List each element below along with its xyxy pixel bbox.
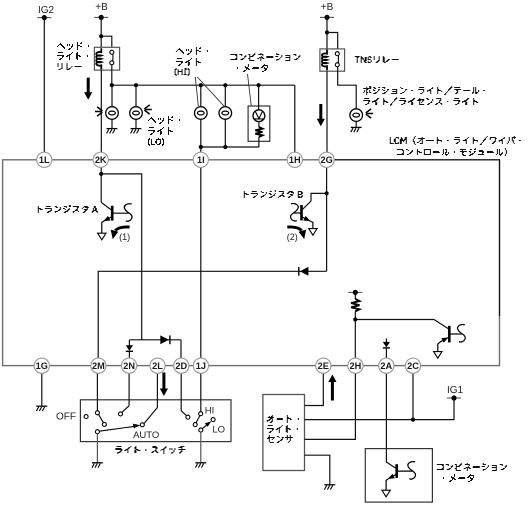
node 2M <box>91 358 106 373</box>
wire LO lamp1 to ground <box>111 119 113 128</box>
wire to HI lamp2 <box>224 85 226 107</box>
label LCM line1 <box>390 136 521 145</box>
wire to transistor B <box>303 193 327 209</box>
wire 2L elbow to AUTO contact <box>144 408 157 424</box>
diode to 2N <box>126 345 133 351</box>
junction bus meter <box>257 83 261 87</box>
label transistor A <box>38 205 98 213</box>
relay box TNS relay <box>320 49 345 71</box>
hook transistor B base <box>291 204 299 221</box>
ground LO lamp2 <box>131 129 142 134</box>
wire 1J into switch <box>200 373 202 411</box>
current arrow (2) <box>287 227 301 230</box>
wire 2G down to diode row <box>326 167 328 271</box>
wire to HI lamp1 <box>200 85 202 107</box>
wire IG2 to 1L <box>43 18 45 153</box>
svg-text:(1): (1) <box>119 232 130 242</box>
lamp headlight HI 2 <box>219 107 232 120</box>
node 2G <box>319 152 334 167</box>
svg-text:AUTO: AUTO <box>133 430 159 441</box>
relay coil <box>96 48 101 69</box>
switch blade AUTO with arrow <box>99 426 138 431</box>
junction bus HI2 <box>223 83 227 87</box>
svg-text:1L: 1L <box>39 155 50 165</box>
wire bus to meter lamp <box>258 85 260 110</box>
hook transistor A base <box>124 204 132 221</box>
lamp headlight LO 1 <box>106 107 119 120</box>
label sensor line2 <box>267 425 298 433</box>
wire to LO lamp1 <box>111 85 113 107</box>
LCM module box <box>3 160 500 366</box>
wire meter out <box>258 137 260 147</box>
terminal above resistor <box>348 290 362 295</box>
combination meter box top <box>248 106 270 141</box>
wire 2G to right edge down <box>334 160 499 316</box>
label TNS relay <box>355 56 399 63</box>
junction bus2 HI2 <box>223 145 227 149</box>
junction below 2K <box>99 172 103 176</box>
TNS relay contact <box>335 52 339 67</box>
ground open triangle B <box>309 229 317 236</box>
wire resistor to 2H <box>354 311 356 358</box>
wire lamp to resistor <box>258 122 260 127</box>
switch blade LO with arrow <box>202 423 209 429</box>
svg-text:2E: 2E <box>318 361 329 371</box>
wire 2N into switch <box>128 373 130 405</box>
wire switch pivot left to ground <box>96 434 98 463</box>
svg-text:IG1: IG1 <box>447 385 464 396</box>
wire sensor to IG1 <box>305 398 455 420</box>
svg-text:+B: +B <box>95 2 108 13</box>
pointer meter label to box <box>248 74 252 106</box>
wire relay contact down <box>111 65 113 85</box>
wire 2D into switch <box>180 373 182 411</box>
node 2E <box>316 358 331 373</box>
IG1 terminal <box>447 395 461 400</box>
wire terminal to resistor <box>354 292 356 299</box>
node 2C <box>405 358 420 373</box>
node 1L <box>37 152 52 167</box>
wire 2E to sensor <box>305 373 324 405</box>
wire 2N elbow <box>122 406 129 413</box>
label LO line3 <box>148 138 164 146</box>
switch contacts right group <box>186 415 190 419</box>
svg-text:1J: 1J <box>196 361 206 371</box>
flow arrow below TNS <box>317 104 325 126</box>
label LO line1 <box>148 116 180 124</box>
IG2 terminal <box>37 15 51 20</box>
wire lamp bus <box>112 84 295 86</box>
transistor right (in LCM) <box>449 326 462 343</box>
wire 2A to meter transistor <box>386 449 395 468</box>
flow arrow below relay <box>84 78 92 100</box>
ground open triangle right <box>434 352 442 359</box>
meter transistor emitter <box>386 474 397 490</box>
wire bus down to 1H <box>294 85 296 152</box>
svg-text:LO: LO <box>212 424 225 435</box>
svg-text:+B: +B <box>321 2 334 13</box>
junction +B TNS branch <box>325 30 329 34</box>
junction bus2 HI1 <box>199 145 203 149</box>
junction transistor B collector <box>325 191 329 195</box>
wire 2L into switch <box>156 373 158 407</box>
wire +B branch to relay contact <box>101 36 112 47</box>
auto light sensor box <box>263 395 305 471</box>
transistor B <box>293 205 301 220</box>
transistor A emitter to ground <box>102 217 112 233</box>
node 1G <box>34 358 49 373</box>
wire LO lamp2 to ground <box>135 119 137 128</box>
svg-text:2N: 2N <box>123 361 135 371</box>
wire HI lamp2 down <box>224 119 226 147</box>
wire diode to 2A <box>385 348 387 358</box>
wire position lamp to ground <box>355 121 357 127</box>
+B terminal right <box>320 15 334 20</box>
wire to diode 2N <box>128 340 130 346</box>
label LCM line2 <box>397 148 507 156</box>
wire branch down to 2D <box>180 340 182 358</box>
svg-text:IG2: IG2 <box>38 5 55 16</box>
wire branch horizontal <box>129 339 181 341</box>
label combination meter top line1 <box>230 53 300 61</box>
svg-text:2C: 2C <box>407 361 419 371</box>
svg-text:1G: 1G <box>36 361 48 371</box>
wire TNS contact to position lamp <box>338 67 357 109</box>
ground position lamp <box>351 127 362 132</box>
node 2D <box>174 358 189 373</box>
pointer HI to lamp2 <box>197 77 225 107</box>
label position light line2 <box>363 97 478 106</box>
label HI line1 <box>176 47 208 55</box>
wire 2H to sensor <box>305 373 356 439</box>
rays position lamp <box>366 109 373 118</box>
label light switch <box>115 446 185 454</box>
svg-text:2M: 2M <box>92 361 105 371</box>
switch blade HI <box>196 416 200 423</box>
node 2N <box>122 358 137 373</box>
junction 2C on IG1 line <box>411 418 415 422</box>
lamp headlight LO 2 <box>130 107 143 120</box>
node 1H <box>287 152 302 167</box>
svg-text:2K: 2K <box>95 155 107 165</box>
junction bus LO1 <box>110 83 114 87</box>
wire 2D elbow <box>181 411 186 416</box>
label HI line2 <box>176 58 201 66</box>
label combination meter bottom line1 <box>437 463 507 471</box>
node 1I <box>193 152 208 167</box>
svg-text:2H: 2H <box>350 361 362 371</box>
wire diode to 2N <box>128 351 130 358</box>
label HI line3 <box>175 68 190 76</box>
junction +B branch <box>99 34 103 38</box>
wire 2K branch down col141 <box>101 174 142 340</box>
ground 1G <box>36 406 47 411</box>
label headlight relay line3 <box>58 63 82 70</box>
label transistor B <box>244 190 303 198</box>
diode to 2D <box>160 335 170 344</box>
flow arrow at 2E up <box>328 375 336 401</box>
indicator lamp in meter <box>253 110 265 122</box>
lamp position light <box>350 109 363 122</box>
svg-text:2A: 2A <box>380 361 392 371</box>
rays LO lamp1 <box>95 107 102 116</box>
wire switch pivot right to ground <box>200 432 202 463</box>
TNS relay coil <box>322 50 327 71</box>
ground sensor <box>324 485 335 490</box>
svg-text:(2): (2) <box>287 232 298 242</box>
+B terminal left <box>94 15 108 20</box>
wire +B to TNS coil <box>326 17 328 49</box>
svg-text:2L: 2L <box>152 361 163 371</box>
pointer HI to lamp1 <box>195 77 198 106</box>
wire 1G to ground <box>41 373 43 406</box>
node 2L <box>150 358 165 373</box>
svg-text:1I: 1I <box>197 155 205 165</box>
resistor R <box>351 299 359 311</box>
wire relay coil to 2K <box>100 70 102 152</box>
diode D row <box>299 267 309 276</box>
ground switch right <box>195 463 206 468</box>
junction bus LO2 <box>134 83 138 87</box>
label sensor line1 <box>267 415 299 423</box>
hook right transistor base <box>458 325 466 342</box>
junction bus HI1 <box>199 83 203 87</box>
transistor B emitter to ground <box>302 217 313 229</box>
wire to LO lamp2 <box>135 85 137 107</box>
label position light line1 <box>363 86 485 95</box>
node 2H <box>348 358 363 373</box>
node 2K <box>93 152 108 167</box>
label LO line2 <box>148 127 173 135</box>
junction resistor out <box>353 317 357 321</box>
wire 2C down <box>412 373 414 419</box>
wire branch to TNS contact <box>327 33 338 49</box>
relay box headlight relay <box>94 47 119 70</box>
wire junction to right transistor <box>355 320 448 329</box>
node 1J <box>193 358 208 373</box>
label combination meter top line2 <box>237 64 268 72</box>
right transistor emitter to ground <box>438 337 450 351</box>
ground open triangle A <box>98 233 106 240</box>
svg-text:2G: 2G <box>320 155 332 165</box>
wire 2M into switch <box>96 373 98 411</box>
wire diode row to 2M <box>98 271 326 358</box>
wire 2K down to transistor A <box>100 167 102 202</box>
transistor A <box>101 202 129 220</box>
switch blade 2M <box>99 414 104 422</box>
ground open triangle meter <box>382 490 390 497</box>
wire 2A to meter <box>385 373 387 448</box>
light switch box <box>80 400 231 442</box>
relay contact <box>110 50 114 65</box>
current arrow (1) <box>115 227 129 230</box>
label sensor line3 <box>267 435 293 443</box>
wire 1I to 1J <box>200 167 202 358</box>
wire lamp bus lower <box>201 146 259 148</box>
ground switch left <box>92 463 103 468</box>
label headlight relay line2 <box>57 52 88 60</box>
hook meter transistor base <box>408 462 416 479</box>
svg-text:OFF: OFF <box>56 411 76 422</box>
diode above 2A <box>383 342 390 348</box>
wire TNS coil to 2G <box>326 71 328 152</box>
combination meter box bottom <box>365 449 432 503</box>
wire 2A stub <box>385 339 387 346</box>
node 2A <box>379 358 394 373</box>
label combination meter bottom line2 <box>443 474 474 482</box>
ground LO lamp1 <box>107 129 118 134</box>
svg-text:1H: 1H <box>289 155 301 165</box>
flow arrow at 2L <box>160 373 168 397</box>
wire HI lamp1 down <box>200 119 202 147</box>
svg-text:HI: HI <box>205 405 215 416</box>
wire sensor to ground <box>305 455 330 484</box>
svg-text:2D: 2D <box>175 361 187 371</box>
wire bus2 to 1I <box>200 147 202 152</box>
label headlight relay line1 <box>57 42 89 50</box>
switch contacts left group <box>84 415 88 419</box>
rays LO lamp2 <box>144 105 151 114</box>
resistor in meter <box>255 127 262 137</box>
lamp headlight HI 1 <box>195 107 208 120</box>
wire +B down to relay coil <box>100 17 102 47</box>
